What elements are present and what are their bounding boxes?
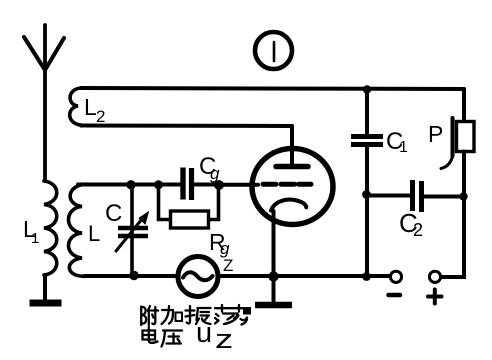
svg-text:z: z bbox=[215, 324, 233, 354]
svg-text:1: 1 bbox=[399, 139, 408, 156]
svg-text:1: 1 bbox=[31, 230, 39, 247]
svg-text:2: 2 bbox=[96, 107, 105, 126]
svg-text:C: C bbox=[105, 200, 122, 227]
svg-text:Z: Z bbox=[223, 256, 233, 275]
svg-text:P: P bbox=[428, 121, 443, 147]
svg-text:g: g bbox=[210, 164, 220, 183]
svg-text:L: L bbox=[88, 221, 100, 246]
svg-text:2: 2 bbox=[413, 220, 423, 240]
